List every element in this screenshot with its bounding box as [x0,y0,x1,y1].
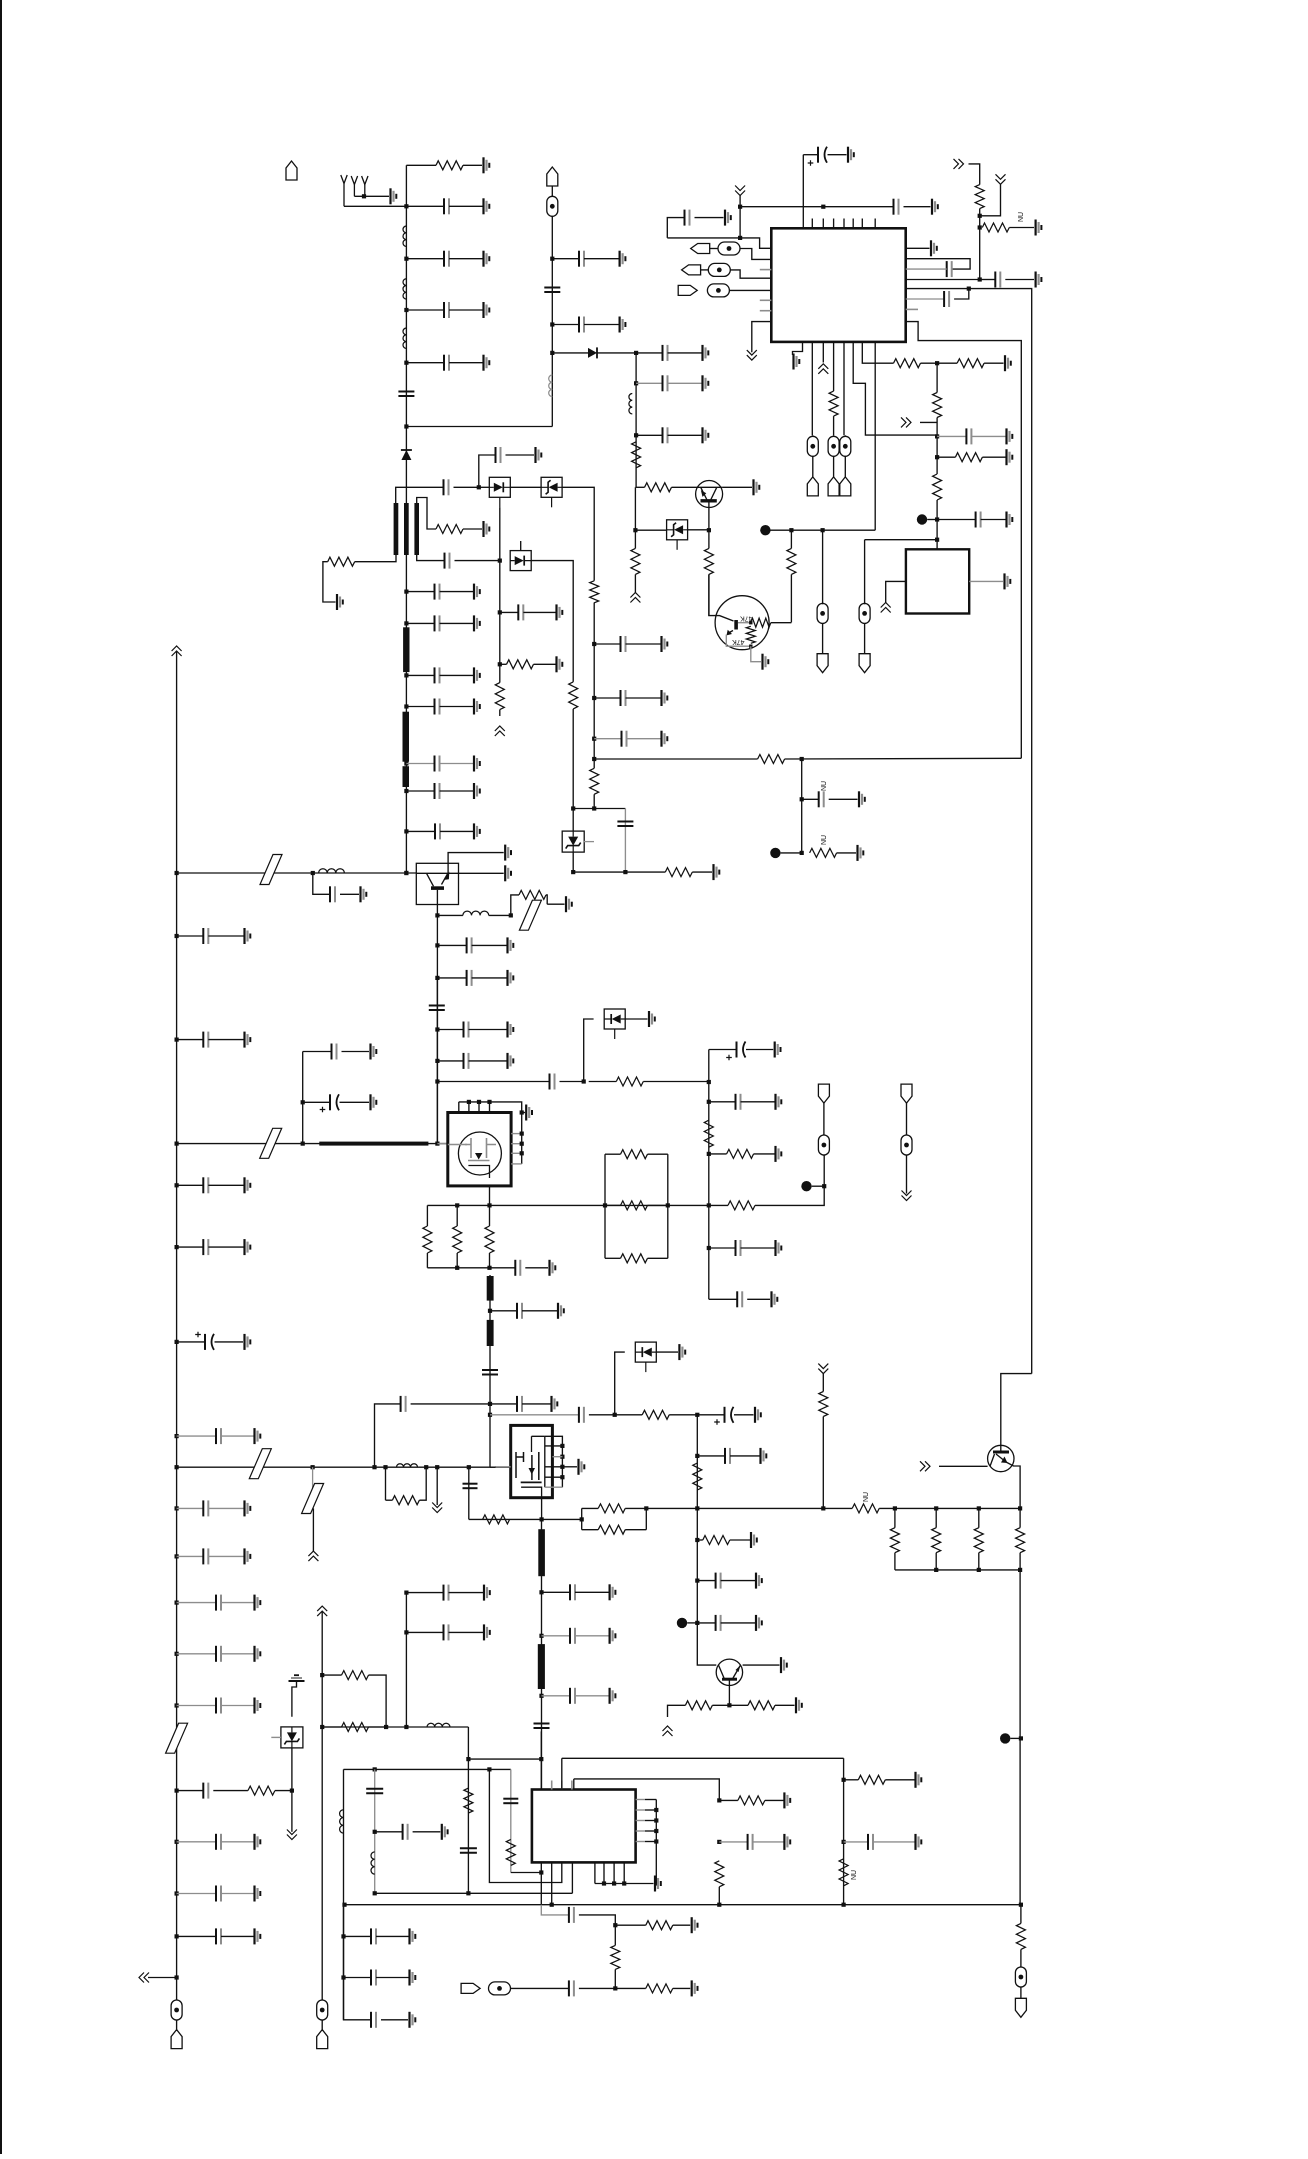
svg-text:47K: 47K [732,638,745,645]
svg-text:47K: 47K [740,615,753,622]
svg-text:NU: NU [863,1492,870,1502]
svg-text:NU: NU [821,781,828,791]
svg-text:NU: NU [821,835,828,845]
svg-text:NU: NU [1018,212,1025,222]
svg-text:NU: NU [851,1870,858,1880]
